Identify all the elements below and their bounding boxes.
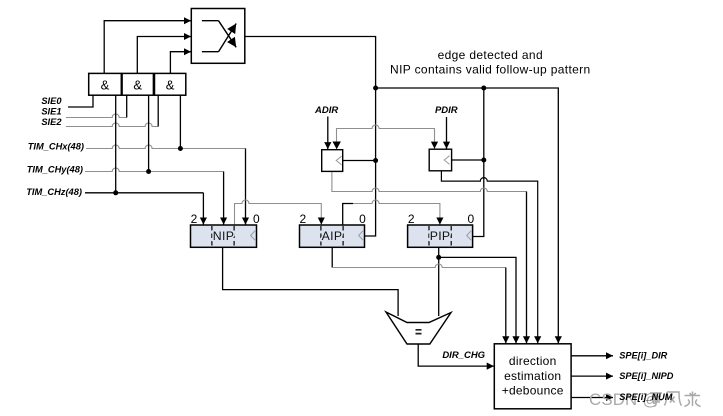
svg-text:SPE[i]_DIR: SPE[i]_DIR bbox=[619, 350, 667, 360]
wire AND1 to crossbar input 1 bbox=[104, 21, 191, 74]
svg-text:0: 0 bbox=[468, 212, 475, 226]
wire TIM_CHx bbox=[86, 145, 246, 149]
wire direction block output 3 bbox=[571, 397, 613, 399]
wire AND2 lower pin to SIE1 bbox=[126, 95, 128, 117]
comparator = bbox=[386, 312, 451, 344]
wire TIM_CHy bbox=[85, 168, 224, 171]
wire gray segment AIP tap to PIP input bbox=[353, 200, 440, 225]
svg-text:SIE1: SIE1 bbox=[41, 107, 61, 117]
svg-text:&: & bbox=[101, 78, 110, 93]
svg-text:SIE2: SIE2 bbox=[41, 117, 62, 127]
wire SIE2 to AND3 bbox=[66, 123, 158, 126]
wire ADIR output to node bbox=[343, 160, 376, 162]
svg-text:0: 0 bbox=[253, 212, 260, 226]
wire AND3 to crossbar input 3 bbox=[170, 52, 191, 74]
node arrowhead into ADIR bbox=[333, 142, 341, 150]
svg-text:TIM_CHz(48): TIM_CHz(48) bbox=[26, 187, 82, 197]
wire AIP output to direction block bbox=[331, 247, 333, 268]
svg-text:TIM_CHy(48): TIM_CHy(48) bbox=[27, 165, 83, 175]
svg-text:PIP: PIP bbox=[430, 229, 451, 243]
svg-text:2: 2 bbox=[408, 212, 415, 226]
wire ADIR label to ADIR box bbox=[327, 117, 329, 150]
wire AND3 lower pin to SIE2 bbox=[157, 95, 159, 126]
wire edge detected line to direction block bbox=[376, 88, 559, 343]
wire PDIR label to PDIR box bbox=[446, 117, 448, 149]
svg-text:SPE[i]_NIPD: SPE[i]_NIPD bbox=[619, 371, 673, 381]
wire ADIR drop into direction block bbox=[526, 192, 528, 344]
node junction edge line left bbox=[373, 86, 378, 91]
wire PDIR bottom to direction block bbox=[441, 171, 537, 344]
wire SIE0 to AND1 bbox=[68, 95, 93, 107]
node junction PDIR output bbox=[481, 158, 486, 163]
direction estimation block bbox=[494, 344, 571, 409]
register PIP bbox=[408, 212, 475, 247]
svg-text:AIP: AIP bbox=[322, 229, 343, 243]
svg-text:direction: direction bbox=[509, 354, 557, 368]
svg-text:2: 2 bbox=[191, 212, 198, 226]
AND gate 3 bbox=[155, 73, 186, 95]
AND gate 1 bbox=[89, 73, 122, 95]
wire NIP top tap to AIP input bbox=[235, 200, 322, 225]
svg-text:NIP contains valid follow-up p: NIP contains valid follow-up pattern bbox=[390, 62, 590, 76]
wire comparator output DIR_CHG to direction block bbox=[418, 344, 494, 366]
svg-text:0: 0 bbox=[359, 212, 366, 226]
node junction TIM_CHx / AND3 bbox=[178, 146, 183, 151]
wire TIM_CHz bbox=[85, 192, 203, 194]
node junction TIM_CHz / AND1 bbox=[113, 190, 118, 195]
svg-text:PDIR: PDIR bbox=[435, 105, 458, 116]
node junction TIM_CHy / AND2 bbox=[146, 169, 151, 174]
svg-text:edge detected and: edge detected and bbox=[438, 48, 543, 62]
register AIP bbox=[300, 212, 367, 247]
svg-text:ADIR: ADIR bbox=[314, 105, 338, 116]
wire AND2 to crossbar input 2 bbox=[137, 37, 191, 74]
wire TIM_CHz down to NIP input 2 bbox=[202, 193, 204, 225]
wire AND1 lower pin to TIM_CHz bbox=[115, 95, 117, 193]
wire AND3 lower pin to TIM_CHx bbox=[179, 95, 181, 148]
svg-text:&: & bbox=[166, 78, 175, 93]
PDIR box U2 bbox=[429, 149, 451, 171]
wire TIM_CHy down to NIP input middle bbox=[223, 172, 225, 225]
wire crossbar output to edge line bbox=[245, 37, 376, 89]
wire direction block output 1 bbox=[571, 355, 613, 357]
watermark CSDN bbox=[589, 390, 701, 409]
ADIR box U1 bbox=[322, 150, 343, 172]
svg-text:NIP: NIP bbox=[213, 229, 234, 243]
svg-text:2: 2 bbox=[300, 212, 307, 226]
wire PIP branch to direction block bbox=[439, 257, 516, 343]
svg-text:TIM_CHx(48): TIM_CHx(48) bbox=[28, 142, 84, 152]
wire branch down to AIP right input bbox=[365, 88, 376, 236]
svg-text:DIR_CHG: DIR_CHG bbox=[442, 350, 485, 361]
wire branch down to PIP right input bbox=[473, 88, 484, 237]
wire AND2 lower pin to TIM_CHy bbox=[148, 95, 150, 171]
wire PDIR output to node bbox=[452, 159, 484, 161]
crossbar inner symbol bbox=[202, 21, 236, 52]
wire direction block output 2 bbox=[571, 375, 613, 377]
wire ADIR second input link to PDIR first input bbox=[337, 125, 435, 150]
AND gate 2 bbox=[122, 73, 153, 95]
svg-text:SIE0: SIE0 bbox=[41, 96, 62, 106]
node junction ADIR output bbox=[373, 158, 378, 163]
wire NIP output to comparator bbox=[223, 247, 399, 317]
crossbar switch block bbox=[191, 9, 245, 64]
wire SIE1 to AND2 bbox=[66, 114, 127, 117]
svg-text:+debounce: +debounce bbox=[502, 384, 564, 398]
node junction edge line right bbox=[481, 86, 486, 91]
svg-text:SPE[i]_NUM: SPE[i]_NUM bbox=[619, 392, 672, 402]
wire TIM_CHx down to NIP input 0 bbox=[245, 149, 247, 225]
wire AIP drop into direction block bbox=[505, 268, 507, 344]
register NIP bbox=[191, 212, 260, 247]
wire ADIR bottom to direction block bbox=[332, 171, 527, 191]
svg-text:&: & bbox=[133, 78, 142, 93]
svg-text:estimation: estimation bbox=[504, 369, 561, 383]
node junction PIP output branch bbox=[436, 255, 441, 260]
wire PIP output to comparator bbox=[438, 247, 440, 317]
wire AIP top tap to PIP input bbox=[343, 204, 353, 226]
